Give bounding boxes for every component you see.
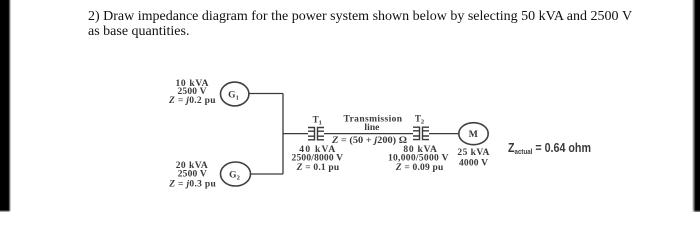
svg-text:4000 V: 4000 V (459, 159, 488, 169)
scan edge bottom fade left (0, 210, 11, 213)
transformer T2 (413, 127, 429, 141)
transformer T1 (308, 127, 324, 141)
scan edge bottom fade right (692, 210, 700, 212)
svg-text:Z = 0.09 pu: Z = 0.09 pu (395, 163, 444, 173)
svg-text:G1: G1 (228, 91, 239, 102)
problem statement text (88, 9, 648, 39)
svg-text:Z = (50 + j200) Ω: Z = (50 + j200) Ω (331, 135, 408, 146)
generator G1 ratings text (168, 79, 216, 106)
wire bus to T1 (283, 133, 308, 135)
motor M ratings text (457, 148, 489, 169)
generator G2 (221, 162, 251, 186)
motor M (459, 123, 488, 145)
svg-text:G2: G2 (229, 171, 240, 182)
svg-text:Z = 0.1 pu: Z = 0.1 pu (296, 163, 340, 173)
wire T2 to motor M (429, 133, 459, 135)
wire G1 to bus (249, 93, 283, 95)
transformer T1 ratings text (292, 145, 344, 173)
svg-text:T1: T1 (313, 115, 322, 127)
wire T1 to T2 (transmission line) (324, 133, 413, 135)
wire G2 to bus (251, 173, 284, 175)
svg-text:line: line (364, 123, 379, 133)
svg-text:2500/8000 V: 2500/8000 V (292, 154, 344, 164)
generator G1 (221, 82, 249, 106)
svg-text:Zactual = 0.64 ohm: Zactual = 0.64 ohm (508, 140, 591, 156)
bus vertical wire (282, 94, 284, 175)
left black scan edge (0, 0, 11, 212)
transmission line name label (344, 115, 403, 134)
svg-text:Z = j0.3 pu: Z = j0.3 pu (168, 180, 216, 190)
svg-text:10,000/5000 V: 10,000/5000 V (388, 154, 449, 164)
right black scan edge (692, 0, 700, 212)
generator G2 ratings text (168, 161, 216, 190)
svg-text:M: M (469, 129, 478, 140)
svg-text:25 kVA: 25 kVA (457, 148, 489, 158)
svg-text:2500 V: 2500 V (178, 170, 207, 180)
svg-text:Z = j0.2 pu: Z = j0.2 pu (168, 96, 216, 106)
svg-text:T2: T2 (415, 114, 424, 126)
transformer T2 ratings text (388, 145, 449, 173)
